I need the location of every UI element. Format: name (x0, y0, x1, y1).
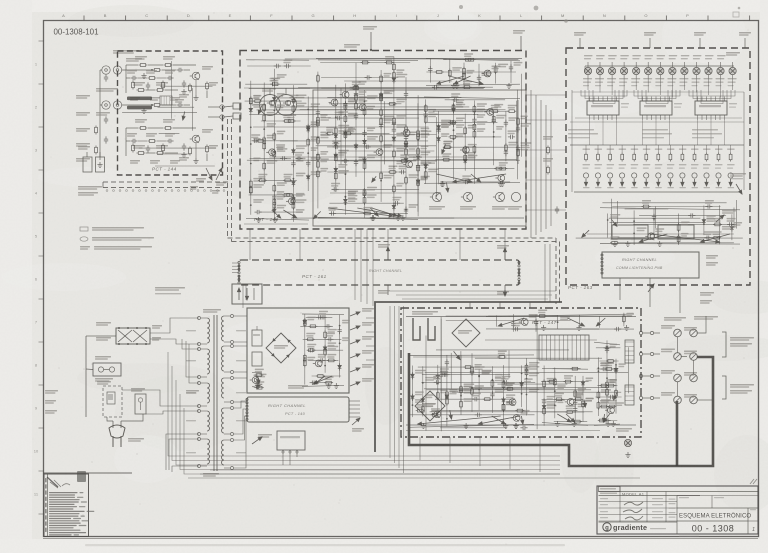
label (440, 389, 447, 391)
wire (521, 74, 523, 157)
resistor (713, 223, 722, 226)
label (619, 149, 627, 150)
transistor (374, 149, 383, 156)
arrow (568, 318, 585, 326)
label (289, 95, 298, 97)
label PCT-146 (288, 385, 308, 387)
driver transistor (704, 173, 709, 178)
resistor (283, 179, 292, 182)
label 13.4 (258, 434, 272, 436)
arrow (471, 174, 481, 182)
lamp label (632, 58, 639, 59)
voltage selector block (116, 328, 150, 344)
wire (43, 472, 132, 474)
photocopy grain (0, 0, 1, 1)
capacitor (146, 145, 150, 152)
resistor (189, 84, 192, 93)
junction (339, 325, 341, 327)
ladder resistor (717, 153, 720, 162)
wire (210, 469, 520, 471)
input jack pin (105, 104, 108, 107)
wire (148, 127, 163, 129)
label (694, 32, 706, 34)
tap (231, 371, 234, 374)
capacitor (520, 426, 527, 430)
wire (643, 375, 650, 377)
text R CHANNEL OUT BL-807 (664, 317, 686, 319)
junction (317, 137, 319, 139)
output pin (220, 115, 224, 119)
driver transistor (620, 173, 625, 178)
edge pin (238, 282, 240, 284)
stub (349, 408, 360, 410)
label (716, 187, 723, 188)
wire (139, 147, 216, 149)
input jack (113, 66, 121, 74)
junction (471, 387, 473, 389)
wire (165, 152, 178, 154)
wire (329, 103, 401, 105)
wire to PCT-161 (459, 229, 461, 260)
resistor (623, 314, 626, 323)
wire (47, 477, 58, 487)
wire (158, 153, 190, 155)
wire (390, 290, 556, 292)
resistor (421, 405, 424, 414)
capacitor (362, 190, 366, 197)
wire (289, 457, 291, 465)
label (621, 103, 629, 104)
wire to PCT-161 (387, 229, 389, 260)
arrow (705, 179, 708, 186)
ground (439, 181, 444, 186)
wire (429, 58, 431, 82)
wire (308, 359, 338, 361)
wire (430, 411, 593, 413)
label (521, 147, 530, 149)
resistor (712, 236, 721, 239)
diode (520, 381, 524, 388)
label (667, 149, 675, 150)
wire (269, 156, 475, 158)
wire (526, 358, 528, 415)
wire (366, 359, 375, 361)
text eletronica ltda (650, 528, 666, 529)
wire (157, 77, 166, 79)
wire (232, 268, 239, 270)
wire (329, 202, 403, 204)
wire (633, 223, 736, 225)
wire (86, 152, 88, 157)
label LIGHT (78, 146, 90, 148)
label (359, 157, 367, 159)
wire (677, 382, 679, 396)
terminal label (661, 392, 675, 394)
transistor (403, 161, 412, 168)
label 220V (96, 322, 111, 324)
label (311, 136, 320, 138)
wire (699, 38, 701, 48)
wire (582, 376, 584, 422)
label (277, 104, 285, 106)
junction (393, 104, 395, 106)
resistor (255, 386, 264, 389)
capacitor (475, 413, 482, 417)
wire (245, 285, 247, 300)
ruler tick (39, 255, 44, 257)
wire (280, 140, 428, 142)
input jack (102, 66, 110, 74)
edge pin (246, 412, 248, 414)
capacitor (274, 64, 281, 68)
wire (625, 208, 669, 210)
ground (624, 325, 629, 330)
label (482, 72, 492, 74)
rail wire (600, 243, 740, 246)
capacitor (424, 111, 428, 118)
wire (440, 319, 442, 432)
terminal pin (650, 331, 653, 334)
stamp text line (49, 511, 85, 512)
resistor (463, 71, 466, 80)
resistor (460, 400, 463, 409)
speaker terminal BL-805 (690, 353, 698, 361)
resistor (393, 149, 396, 158)
label (505, 382, 514, 384)
tap (198, 433, 201, 436)
label 0V (152, 337, 161, 339)
edge pin (238, 278, 240, 280)
wire (126, 64, 138, 66)
label (431, 408, 440, 410)
wire (249, 113, 478, 115)
legend line 3 (80, 246, 90, 248)
junction (554, 390, 556, 392)
wire (542, 398, 581, 400)
label (441, 124, 450, 126)
diode (303, 318, 307, 325)
resistor (597, 401, 600, 410)
wire down (354, 229, 356, 300)
transformer secondary winding (222, 408, 225, 433)
wire (544, 244, 546, 302)
label (384, 90, 392, 92)
ground (657, 241, 662, 246)
resistor (610, 241, 619, 244)
wire (47, 474, 49, 537)
driver transistor (656, 173, 661, 178)
label (703, 149, 711, 150)
junction (598, 367, 600, 369)
resistor (606, 360, 615, 363)
ladder resistor (693, 153, 696, 162)
wire (250, 157, 291, 159)
resistor (417, 164, 420, 173)
rail wire (252, 371, 262, 374)
ground (421, 423, 426, 428)
label (607, 187, 614, 188)
arrow (252, 437, 262, 444)
label (421, 134, 430, 136)
wire (234, 416, 247, 440)
label (506, 382, 515, 384)
routing wire (693, 90, 731, 99)
label (76, 143, 90, 145)
wire (722, 376, 726, 399)
diode (323, 345, 327, 352)
rail wire (594, 424, 620, 425)
stamp text line (49, 534, 72, 535)
edge pin (518, 268, 520, 270)
wire (607, 214, 609, 238)
label (331, 183, 340, 185)
wire (176, 380, 560, 465)
wire (654, 206, 656, 228)
wire (677, 337, 679, 353)
arrow (611, 219, 617, 226)
rail wire (246, 218, 309, 220)
capacitor (354, 113, 358, 120)
junction (307, 152, 309, 154)
junction (582, 403, 584, 405)
arrow (639, 234, 667, 243)
ground (612, 241, 617, 246)
transistor (519, 319, 528, 326)
label (311, 147, 318, 149)
label (338, 170, 349, 172)
tap (231, 345, 234, 348)
resistor (385, 61, 394, 64)
edge pin (238, 261, 240, 263)
wire (312, 382, 333, 384)
label (342, 320, 350, 322)
wire (279, 97, 450, 99)
resistor (307, 138, 310, 147)
resistor (388, 171, 397, 174)
wire (306, 316, 333, 318)
resistor (492, 115, 495, 124)
label (311, 157, 321, 159)
transistor (482, 70, 491, 77)
diode (249, 106, 253, 113)
wire (168, 352, 560, 456)
wire (257, 109, 492, 111)
wire (599, 316, 601, 328)
terminal label (661, 349, 675, 351)
label (607, 149, 615, 150)
stamp text (87, 511, 95, 512)
junction (460, 395, 462, 397)
wire (623, 313, 625, 327)
stamp text line (49, 497, 75, 498)
wire (536, 321, 538, 429)
ground (572, 421, 577, 426)
transformer primary winding (207, 349, 210, 374)
label (452, 67, 462, 69)
level lamp L-902 (597, 68, 603, 74)
label (320, 132, 331, 134)
wire (155, 165, 215, 167)
wire (329, 212, 408, 214)
label (415, 370, 426, 372)
wire (545, 105, 547, 229)
transistor die (283, 100, 291, 105)
capacitor (270, 82, 277, 86)
resistor (473, 145, 476, 154)
ground (555, 421, 560, 426)
label (409, 132, 417, 134)
label (359, 81, 367, 83)
transformer primary winding (207, 318, 210, 343)
wire (530, 90, 532, 238)
resistor (153, 104, 162, 107)
ground (503, 423, 508, 428)
label (287, 115, 296, 117)
arrow (621, 179, 624, 186)
label (277, 196, 285, 198)
wire (595, 396, 621, 398)
level lamp L-901 (585, 68, 591, 74)
junction (263, 128, 265, 130)
wire (570, 121, 744, 123)
wire (478, 369, 480, 410)
resistor (139, 64, 148, 67)
label (175, 99, 184, 101)
arrow (645, 179, 648, 186)
label S-801 (97, 381, 111, 383)
wire (184, 69, 190, 71)
stamp text line (49, 520, 80, 521)
label (631, 149, 639, 150)
wire (173, 64, 196, 66)
rail wire (246, 59, 309, 61)
wire (596, 347, 621, 349)
wire (517, 100, 519, 164)
resistor (443, 146, 452, 149)
wire (559, 242, 561, 305)
junction (492, 379, 494, 381)
wire (452, 136, 502, 138)
transistor (507, 399, 516, 406)
junction (554, 404, 556, 406)
arrow (314, 211, 321, 218)
wire to PCT-161 (249, 229, 251, 260)
label (679, 164, 687, 165)
wire (96, 335, 116, 337)
label TP-B02 (186, 390, 199, 392)
fuse F-801 (93, 363, 121, 376)
wire (719, 205, 721, 244)
label (384, 116, 394, 118)
dual transistor TR-2 (276, 95, 297, 116)
filter capacitor C-802 (252, 352, 262, 366)
level lamp L-910 (694, 68, 700, 74)
junction (478, 389, 480, 391)
label (600, 363, 609, 365)
label (729, 103, 737, 104)
label (456, 118, 465, 120)
capacitor (332, 187, 339, 191)
wire (413, 356, 501, 358)
label -B6 (216, 182, 226, 184)
resistor (463, 67, 466, 76)
wire (254, 387, 263, 389)
tap wire (182, 339, 199, 349)
label (547, 405, 557, 407)
wire (339, 315, 341, 378)
arrow (614, 393, 618, 400)
routing wire (581, 90, 627, 96)
ground (193, 95, 198, 100)
resistor (334, 126, 337, 135)
thermal protector TP-801 (135, 394, 146, 414)
arrow (442, 144, 446, 153)
resistor (405, 147, 408, 156)
resistor (273, 132, 276, 141)
wire (317, 72, 319, 209)
label (626, 313, 633, 315)
stamp text line (49, 516, 79, 517)
resistor (517, 148, 520, 157)
edge pin (518, 278, 520, 280)
resistor (464, 126, 467, 135)
resistor (400, 160, 409, 163)
resistor (283, 120, 292, 123)
wire (99, 70, 101, 160)
label (615, 402, 624, 404)
preamp board PCT-144 dashed outline (118, 51, 223, 175)
edge pin (518, 265, 520, 267)
ground (576, 325, 581, 330)
resistor (442, 158, 451, 161)
wire (512, 314, 514, 332)
rail wire (252, 384, 262, 386)
wire (346, 132, 389, 134)
diode (306, 174, 310, 181)
input jack (102, 101, 110, 109)
edge pin (518, 261, 520, 263)
wire (735, 200, 737, 229)
resistor (263, 103, 266, 112)
resistor (471, 387, 474, 396)
resistor (287, 120, 296, 123)
label TR-101 (202, 129, 213, 131)
ground (255, 383, 260, 388)
arrow (596, 318, 605, 326)
wire (421, 381, 535, 383)
label (610, 379, 618, 381)
resistor (547, 380, 556, 383)
diode (354, 143, 358, 150)
wire (435, 398, 515, 400)
junction (293, 178, 295, 180)
resistor (424, 104, 427, 113)
capacitor (573, 400, 577, 407)
level lamp L-908 (670, 68, 676, 74)
rail wire (318, 59, 418, 62)
diode (416, 178, 420, 185)
resistor (164, 127, 173, 130)
resistor (573, 420, 582, 423)
resistor (502, 380, 505, 389)
label (296, 209, 305, 211)
rail wire (318, 217, 418, 219)
ground loop ticks under bus (106, 190, 225, 192)
stamp text (79, 506, 85, 507)
label (529, 314, 538, 316)
label (396, 115, 406, 117)
stub (349, 416, 360, 418)
